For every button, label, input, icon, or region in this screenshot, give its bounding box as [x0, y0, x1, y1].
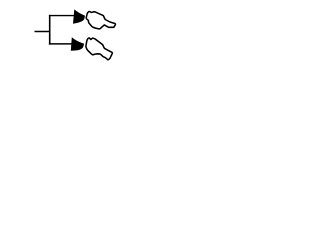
wire: vertical branch bus [49, 15, 51, 45]
wire: bottom branch to camera 2 [49, 43, 72, 45]
camera CAM1 (top) body outline [86, 12, 115, 29]
background [0, 0, 150, 69]
camera CAM2 (bottom) lens cone [71, 37, 84, 50]
camera CAM1 (top) lens cone [73, 9, 85, 23]
wire: input stub [35, 31, 51, 33]
camera CAM2 (bottom) body outline [86, 38, 112, 60]
wire: top branch to camera 1 [49, 15, 74, 17]
